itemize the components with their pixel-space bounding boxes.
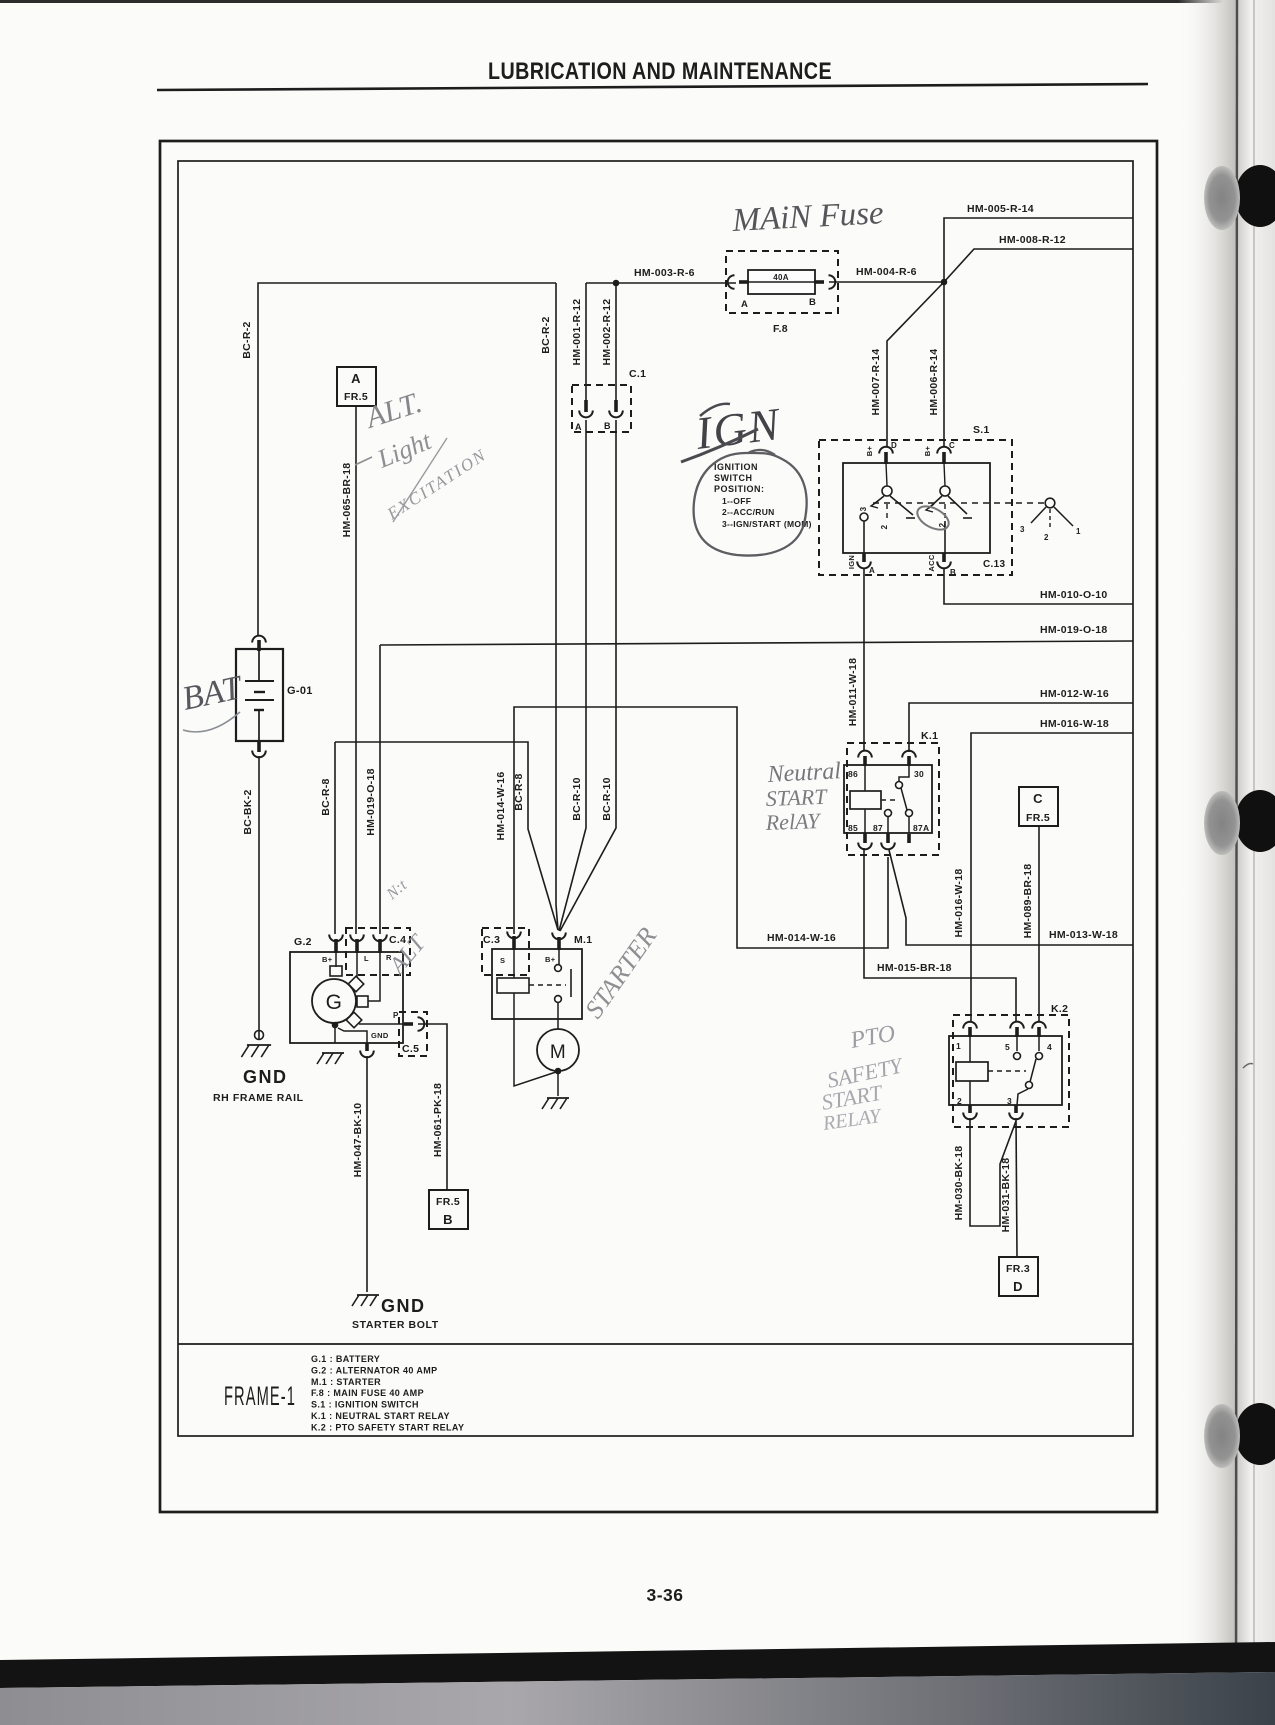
- svg-text:BC-R-10: BC-R-10: [571, 777, 583, 821]
- G.2 terminal R: [373, 935, 387, 942]
- connector C.4 dashed box: [346, 928, 410, 975]
- svg-text:Light: Light: [372, 426, 435, 474]
- svg-text:ACC: ACC: [927, 554, 936, 571]
- ground RH frame rail symbol: [255, 1031, 264, 1040]
- svg-text:HM-010-O-10: HM-010-O-10: [1040, 589, 1107, 601]
- wire HM-065-BR-18: [355, 406, 357, 934]
- svg-text:1: 1: [956, 1041, 961, 1051]
- fuse F.8 right terminal: [814, 280, 824, 284]
- wire HM-012-W-16: [909, 703, 1133, 752]
- svg-text:1--OFF: 1--OFF: [722, 496, 751, 506]
- svg-text:BC-BK-2: BC-BK-2: [242, 789, 254, 834]
- svg-text:M.1 : STARTER: M.1 : STARTER: [311, 1377, 381, 1387]
- page bottom edge shadow: [0, 1642, 1275, 1688]
- svg-text:G.2 : ALTERNATOR 40 AMP: G.2 : ALTERNATOR 40 AMP: [311, 1365, 438, 1375]
- wire HM-003-R-6: [586, 282, 736, 284]
- svg-text:D: D: [891, 441, 897, 450]
- S.1 terminal A (IGN): [862, 553, 866, 562]
- page top scan edge: [0, 0, 1262, 3]
- M.1 solenoid coil: [497, 978, 529, 993]
- handwriting oval around position 2: [914, 502, 953, 535]
- svg-text:START: START: [765, 784, 828, 811]
- G.2 L internal stub: [356, 953, 358, 977]
- wire HM-016-W-18 horizontal: [971, 733, 1133, 1022]
- svg-text:S.1: S.1: [973, 424, 990, 436]
- svg-text:40A: 40A: [773, 273, 789, 282]
- svg-text:GND: GND: [371, 1031, 389, 1040]
- wire BC-R-2 battery positive (vertical + top run): [258, 283, 556, 636]
- S.1 terminal D: [879, 447, 893, 454]
- wire HM-047-BK-10: [366, 1056, 368, 1292]
- S.1 left pole position 2 dash: [886, 504, 888, 521]
- G.2 P internal stub: [346, 1012, 362, 1028]
- svg-text:B+: B+: [923, 445, 932, 456]
- svg-text:A: A: [741, 299, 748, 310]
- binder ring hole 3: [1235, 1403, 1275, 1465]
- svg-text:STARTER BOLT: STARTER BOLT: [352, 1319, 439, 1331]
- page curl edge line: [1233, 0, 1237, 1648]
- wire HM-004-R-6: [829, 281, 944, 283]
- svg-text:HM-007-R-14: HM-007-R-14: [870, 349, 882, 416]
- relay K.1 dashed box: [847, 743, 939, 855]
- G.2 terminal L: [350, 935, 364, 942]
- svg-text:B: B: [443, 1212, 453, 1227]
- svg-text:M: M: [550, 1042, 566, 1063]
- svg-text:C.1: C.1: [629, 368, 646, 380]
- outer border frame: [160, 141, 1157, 1512]
- G.2 case ground symbol: [322, 1052, 344, 1054]
- K.2 terminal 1: [963, 1022, 977, 1029]
- svg-text:B: B: [950, 568, 956, 577]
- ignition switch S.1 body: [843, 463, 990, 553]
- svg-text:F.8 : MAIN FUSE 40 AMP: F.8 : MAIN FUSE 40 AMP: [311, 1388, 424, 1398]
- alternator G.2 box: [290, 952, 403, 1043]
- M.1 ground symbol: [547, 1097, 569, 1099]
- S.1 selector dashed line: [873, 502, 1044, 504]
- wire HM-031-BK-18: [1016, 1118, 1017, 1257]
- svg-text:HM-016-W-18: HM-016-W-18: [953, 868, 965, 937]
- svg-text:HM-030-BK-18: HM-030-BK-18: [953, 1146, 965, 1221]
- M.1 terminal B+: [552, 933, 566, 940]
- relay K.2 body: [949, 1036, 1062, 1105]
- svg-text:B+: B+: [545, 955, 556, 964]
- wire HM-030-BK-18: [970, 1118, 1016, 1226]
- svg-text:HM-011-W-18: HM-011-W-18: [847, 658, 859, 726]
- G.2 B+ internal stub: [335, 953, 337, 967]
- svg-text:D: D: [1013, 1279, 1023, 1294]
- svg-text:LUBRICATION AND MAINTENANCE: LUBRICATION AND MAINTENANCE: [488, 58, 832, 85]
- svg-text:POSITION:: POSITION:: [714, 484, 765, 494]
- S.1 terminal B (ACC): [942, 553, 946, 562]
- svg-text:BC-R-2: BC-R-2: [241, 321, 253, 358]
- wire BC-BK-2 battery negative: [258, 756, 260, 1040]
- svg-text:C: C: [1033, 791, 1043, 806]
- wire HM-011-W-18: [863, 568, 865, 750]
- G.2 generator circle: [312, 979, 356, 1023]
- svg-text:G.1 : BATTERY: G.1 : BATTERY: [311, 1354, 380, 1364]
- svg-text:2: 2: [1044, 533, 1049, 542]
- K.1 contact: [899, 766, 909, 781]
- handwriting circle around switch note: [694, 450, 807, 556]
- binder next-page band: [1238, 0, 1275, 1648]
- svg-text:HM-012-W-16: HM-012-W-16: [1040, 688, 1109, 700]
- K.1 terminal 86: [858, 751, 872, 758]
- svg-text:MAiN Fuse: MAiN Fuse: [731, 195, 885, 239]
- svg-text:ALT.: ALT.: [360, 386, 426, 435]
- svg-text:G.2: G.2: [294, 936, 312, 948]
- binder page-edge shading band: [1178, 0, 1238, 1655]
- svg-text:IGNITION: IGNITION: [714, 462, 758, 472]
- connector C.1 pin B: [614, 400, 618, 412]
- connector C.3 dashed box: [482, 928, 529, 975]
- K.2 terminal 4: [1032, 1022, 1046, 1029]
- off-page connector FR.5 B: [429, 1190, 468, 1229]
- svg-text:HM-019-O-18: HM-019-O-18: [1040, 624, 1107, 636]
- svg-text:GND: GND: [381, 1296, 426, 1316]
- svg-text:IGN: IGN: [847, 555, 856, 569]
- svg-text:FR.5: FR.5: [344, 391, 368, 403]
- junction dot HM-004/HM-005: [941, 279, 948, 286]
- wire HM-010-O-10 (ACC feed): [944, 568, 1133, 604]
- ignition switch S.1 dashed box: [819, 440, 1012, 575]
- svg-text:5: 5: [1005, 1042, 1010, 1052]
- scanner bed below page: [0, 1672, 1275, 1725]
- svg-text:A: A: [869, 566, 875, 575]
- M.1 coil ground jumper: [514, 993, 556, 1086]
- wire BC-R-10 first (from C.1 A): [559, 420, 586, 931]
- svg-text:B+: B+: [865, 445, 874, 456]
- binder ring hole 2: [1235, 790, 1275, 852]
- wire HM-001-R-12 drop: [585, 283, 587, 406]
- S.1 right pole ACC wire: [944, 521, 946, 553]
- M.1 motor ground node: [555, 1068, 562, 1075]
- wire HM-007-R-14: [887, 282, 944, 446]
- svg-text:HM-014-W-16: HM-014-W-16: [767, 932, 836, 944]
- S.1 left pole pivot: [886, 463, 887, 486]
- svg-text:C.5: C.5: [402, 1043, 419, 1055]
- off-page connector FR.3 D: [999, 1257, 1038, 1296]
- svg-text:HM-001-R-12: HM-001-R-12: [571, 299, 583, 366]
- svg-text:SWITCH: SWITCH: [714, 473, 753, 483]
- svg-text:HM-031-BK-18: HM-031-BK-18: [1000, 1158, 1012, 1233]
- svg-text:30: 30: [914, 769, 924, 779]
- svg-text:Neutral: Neutral: [766, 758, 842, 788]
- K.2 terminal 5: [1010, 1022, 1024, 1029]
- S.1 terminal C: [937, 447, 951, 454]
- svg-text:HM-019-O-18: HM-019-O-18: [365, 768, 377, 835]
- svg-text:87A: 87A: [913, 823, 930, 833]
- svg-text:C.3: C.3: [483, 934, 500, 946]
- ground starter bolt symbol: [357, 1294, 379, 1296]
- svg-text:HM-003-R-6: HM-003-R-6: [634, 267, 695, 279]
- svg-text:2: 2: [957, 1096, 962, 1106]
- connector C.5 pin: [404, 1022, 413, 1026]
- svg-text:HM-015-BR-18: HM-015-BR-18: [877, 962, 952, 974]
- svg-text:3: 3: [859, 506, 868, 511]
- svg-text:HM-016-W-18: HM-016-W-18: [1040, 718, 1109, 730]
- inner border frame: [178, 161, 1133, 1436]
- svg-text:BC-R-10: BC-R-10: [601, 777, 613, 821]
- fuse F.8 body: [748, 270, 815, 294]
- svg-text:M.1: M.1: [574, 934, 592, 946]
- svg-text:IGN: IGN: [692, 398, 784, 459]
- connector C.5 box: [399, 1012, 427, 1056]
- svg-text:HM-005-R-14: HM-005-R-14: [967, 203, 1034, 215]
- wire HM-002-R-12 drop: [615, 283, 617, 406]
- wire HM-061-PK-18: [418, 1024, 447, 1190]
- svg-text:3: 3: [1007, 1096, 1012, 1106]
- svg-text:FR.5: FR.5: [1026, 812, 1050, 824]
- G.2 terminal B+: [329, 935, 343, 942]
- svg-text:A: A: [575, 422, 582, 432]
- svg-text:K.1: K.1: [921, 730, 938, 742]
- svg-text:3--IGN/START (MOM): 3--IGN/START (MOM): [722, 519, 812, 529]
- svg-text:2: 2: [880, 524, 889, 529]
- K.2 coil: [956, 1062, 988, 1081]
- svg-text:GND: GND: [243, 1067, 288, 1087]
- M.1 contact: [558, 950, 560, 964]
- svg-text:B: B: [604, 421, 611, 431]
- svg-text:L: L: [364, 954, 369, 963]
- M.1 terminal S: [507, 932, 521, 939]
- wire HM-014-W-16 upper run: [514, 707, 888, 948]
- K.1 coil: [850, 791, 881, 809]
- wire P to C.5: [359, 1023, 405, 1025]
- K.2 contact: [1016, 1037, 1018, 1051]
- svg-text:BC-R-2: BC-R-2: [540, 316, 552, 353]
- svg-text:PTO: PTO: [848, 1021, 898, 1055]
- battery G-01 box: [236, 649, 283, 741]
- fuse F.8 left terminal: [739, 280, 749, 284]
- svg-text:RH FRAME RAIL: RH FRAME RAIL: [213, 1092, 304, 1104]
- connector C.1 pin A: [584, 400, 588, 412]
- starter M.1 box: [492, 949, 582, 1019]
- S.1 right pole pivot: [944, 463, 945, 486]
- wire BC-R-8 alternator B+ drop: [334, 742, 336, 934]
- relay K.2 dashed box: [953, 1015, 1069, 1127]
- svg-text:HM-004-R-6: HM-004-R-6: [856, 266, 917, 278]
- svg-text:HM-047-BK-10: HM-047-BK-10: [352, 1103, 364, 1178]
- svg-text:FR.3: FR.3: [1006, 1263, 1030, 1275]
- binder ring hole 1: [1235, 165, 1275, 227]
- svg-text:87: 87: [873, 823, 883, 833]
- S.1 left pole blades: [874, 496, 884, 504]
- wire HM-019-O-18 drop to alternator: [379, 645, 381, 934]
- battery G-01 top connector: [257, 640, 261, 651]
- M.1 motor feed: [557, 1002, 559, 1029]
- wire HM-008-R-12: [944, 249, 1133, 282]
- svg-text:HM-065-BR-18: HM-065-BR-18: [341, 463, 353, 538]
- M.1 motor circle: [537, 1029, 579, 1071]
- svg-text:HM-006-R-14: HM-006-R-14: [928, 349, 940, 416]
- junction dot HM-002/HM-003: [613, 280, 620, 287]
- wire BC-R-10 second (from C.1 B): [560, 420, 616, 931]
- wire BC-R-8 alternator jumper: [335, 742, 558, 930]
- S.1 key position symbol: [1045, 498, 1055, 508]
- G.2 R internal stub: [368, 953, 380, 1001]
- wire BC-R-2 right drop to starter B+: [556, 283, 558, 930]
- svg-text:HM-002-R-12: HM-002-R-12: [601, 299, 613, 366]
- wire HM-015-BR-18 (from K.1 85): [864, 848, 1016, 1022]
- svg-text:HM-008-R-12: HM-008-R-12: [999, 234, 1066, 246]
- battery G-01 plates: [258, 649, 260, 680]
- S.1 right pole blades: [929, 496, 942, 508]
- wire HM-006-R-14: [943, 282, 945, 446]
- off-page connector A / FR.5: [337, 367, 376, 406]
- stray pencil mark right margin: [1243, 1064, 1253, 1069]
- svg-text:C.13: C.13: [983, 559, 1005, 570]
- legend separator line: [178, 1343, 1133, 1345]
- svg-text:K.1 : NEUTRAL START RELAY: K.1 : NEUTRAL START RELAY: [311, 1411, 450, 1421]
- fuse F.8 dashed box: [726, 251, 838, 313]
- svg-text:HM-061-PK-18: HM-061-PK-18: [432, 1083, 444, 1157]
- svg-text:3-36: 3-36: [646, 1585, 683, 1605]
- relay K.1 body: [844, 765, 932, 833]
- svg-text:85: 85: [848, 823, 858, 833]
- svg-text:HM-013-W-18: HM-013-W-18: [1049, 929, 1118, 941]
- svg-text:RelAY: RelAY: [764, 808, 822, 835]
- svg-text:HM-089-BR-18: HM-089-BR-18: [1022, 864, 1034, 939]
- connector C.1 box: [572, 385, 631, 432]
- off-page connector C FR.5: [1019, 787, 1058, 826]
- svg-text:G: G: [326, 991, 343, 1014]
- svg-text:FRAME-1: FRAME-1: [224, 1381, 296, 1411]
- title underline: [157, 84, 1148, 90]
- battery G-01 bottom connector: [257, 741, 261, 752]
- svg-text:86: 86: [848, 769, 858, 779]
- svg-text:G-01: G-01: [287, 685, 313, 697]
- svg-text:A: A: [351, 371, 361, 386]
- svg-text:HM-014-W-16: HM-014-W-16: [495, 771, 507, 840]
- svg-text:FR.5: FR.5: [436, 1196, 460, 1208]
- svg-text:K.2: K.2: [1051, 1003, 1068, 1015]
- svg-text:S: S: [500, 956, 505, 965]
- svg-text:B: B: [809, 297, 816, 308]
- svg-text:3: 3: [1020, 525, 1025, 534]
- svg-text:F.8: F.8: [773, 323, 788, 335]
- svg-text:B+: B+: [322, 955, 333, 964]
- K.1 terminal 30: [902, 751, 916, 758]
- G.2 bottom connector: [365, 1043, 369, 1051]
- svg-text:BC-R-8: BC-R-8: [320, 778, 332, 815]
- svg-text:C: C: [949, 441, 955, 450]
- svg-text:4: 4: [1047, 1042, 1052, 1052]
- svg-text:N:t: N:t: [383, 877, 411, 904]
- svg-text:S.1 : IGNITION SWITCH: S.1 : IGNITION SWITCH: [311, 1400, 419, 1410]
- wire HM-089-BR-18: [1038, 826, 1040, 1022]
- svg-text:1: 1: [1076, 527, 1081, 536]
- wire HM-019-O-18 long run: [380, 641, 1133, 645]
- svg-text:2--ACC/RUN: 2--ACC/RUN: [722, 507, 775, 517]
- svg-text:K.2 : PTO SAFETY START RELAY: K.2 : PTO SAFETY START RELAY: [311, 1422, 464, 1432]
- G.2 internal ground node: [332, 1022, 339, 1029]
- wire HM-013-W-18 (from K.1 87): [889, 850, 1133, 945]
- wire HM-005-R-14: [944, 218, 1133, 282]
- S.1 right pole position 2 dash: [944, 504, 946, 518]
